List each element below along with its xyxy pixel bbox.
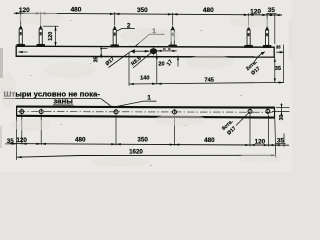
hole 4	[173, 110, 177, 114]
hole 2	[39, 110, 43, 114]
vertical dim 20 below hole / 140 junction	[156, 54, 158, 85]
callout 1 in plan	[113, 101, 157, 107]
svg-text:1: 1	[147, 94, 151, 101]
beam side view bottom edge	[16, 55, 275, 58]
small arrow inside beam left end	[19, 51, 28, 53]
beam side view top edge	[16, 46, 275, 47]
svg-text:35: 35	[276, 44, 281, 49]
svg-text:20: 20	[158, 61, 164, 67]
svg-text:30: 30	[279, 115, 285, 121]
extension lines down to bottom chain	[17, 115, 285, 160]
extension lines from pins up to top dimension chain	[21, 12, 275, 44]
vertical dim 120 near pin 2	[43, 26, 59, 46]
hole 6	[266, 109, 270, 113]
overall dim 1620	[17, 155, 276, 157]
svg-text:480: 480	[75, 137, 86, 144]
dim line 140 / 745	[129, 45, 284, 86]
svg-text:Штыри условно не пока-: Штыри условно не пока-	[4, 89, 101, 98]
hole 1	[20, 110, 24, 114]
leader and label D17	[109, 51, 150, 67]
svg-text:140: 140	[140, 75, 149, 81]
label 2otv D17 top right, slanted	[255, 52, 264, 61]
svg-text:35: 35	[268, 7, 276, 14]
horizontal dim from hole to pin 4	[157, 50, 177, 52]
svg-text:480: 480	[204, 137, 215, 144]
right dim 30	[272, 103, 290, 116]
vertical dim 35 (beam wall)	[101, 47, 107, 58]
pin 2	[37, 25, 45, 46]
scan mottle	[0, 11, 282, 167]
beam right end	[273, 47, 275, 58]
svg-text:35: 35	[275, 66, 281, 72]
pin 1	[17, 25, 25, 46]
svg-text:745: 745	[205, 77, 214, 83]
svg-text:120: 120	[48, 32, 54, 41]
bottom chain labels	[7, 137, 285, 146]
plan holes	[20, 109, 270, 114]
callout 2 (stud)	[117, 28, 135, 31]
plan centerline (dash-dot)	[18, 111, 273, 114]
top dimension chain line	[14, 13, 282, 15]
leader and label R8.5	[133, 53, 151, 68]
top chain arrowheads	[16, 12, 280, 16]
right vertical dim 35	[274, 57, 276, 82]
hole 3	[114, 110, 118, 114]
svg-text:350: 350	[137, 7, 148, 14]
svg-text:120: 120	[250, 8, 261, 15]
paper background	[0, 0, 292, 172]
note text: pins not shown	[4, 89, 101, 105]
callout 1 (beam)	[135, 34, 165, 46]
svg-text:2: 2	[127, 22, 131, 29]
leader from note to plan view	[101, 99, 113, 108]
middle hole in side view	[150, 47, 157, 55]
pin 6	[263, 26, 271, 47]
beam left end	[15, 46, 17, 58]
svg-text:120: 120	[255, 138, 266, 145]
top chain labels	[19, 7, 275, 16]
hole 5	[248, 109, 252, 113]
bottom dimension chain line	[10, 144, 290, 146]
pin 5	[245, 26, 253, 47]
scan speckles	[30, 20, 242, 166]
svg-text:1620: 1620	[129, 148, 143, 155]
bottom chain arrowheads	[12, 143, 280, 147]
plan view outline	[17, 106, 275, 119]
pin 4	[169, 26, 177, 47]
pin 3	[111, 26, 119, 47]
svg-text:35: 35	[93, 57, 99, 63]
svg-text:350: 350	[137, 137, 148, 144]
leader 6 holes D17	[236, 113, 249, 126]
svg-text:заны: заны	[53, 96, 73, 105]
svg-text:120: 120	[16, 137, 27, 144]
svg-text:480: 480	[203, 7, 214, 14]
svg-text:480: 480	[71, 7, 82, 14]
short extension below pin 4	[177, 56, 179, 67]
edge smudges	[0, 48, 3, 78]
